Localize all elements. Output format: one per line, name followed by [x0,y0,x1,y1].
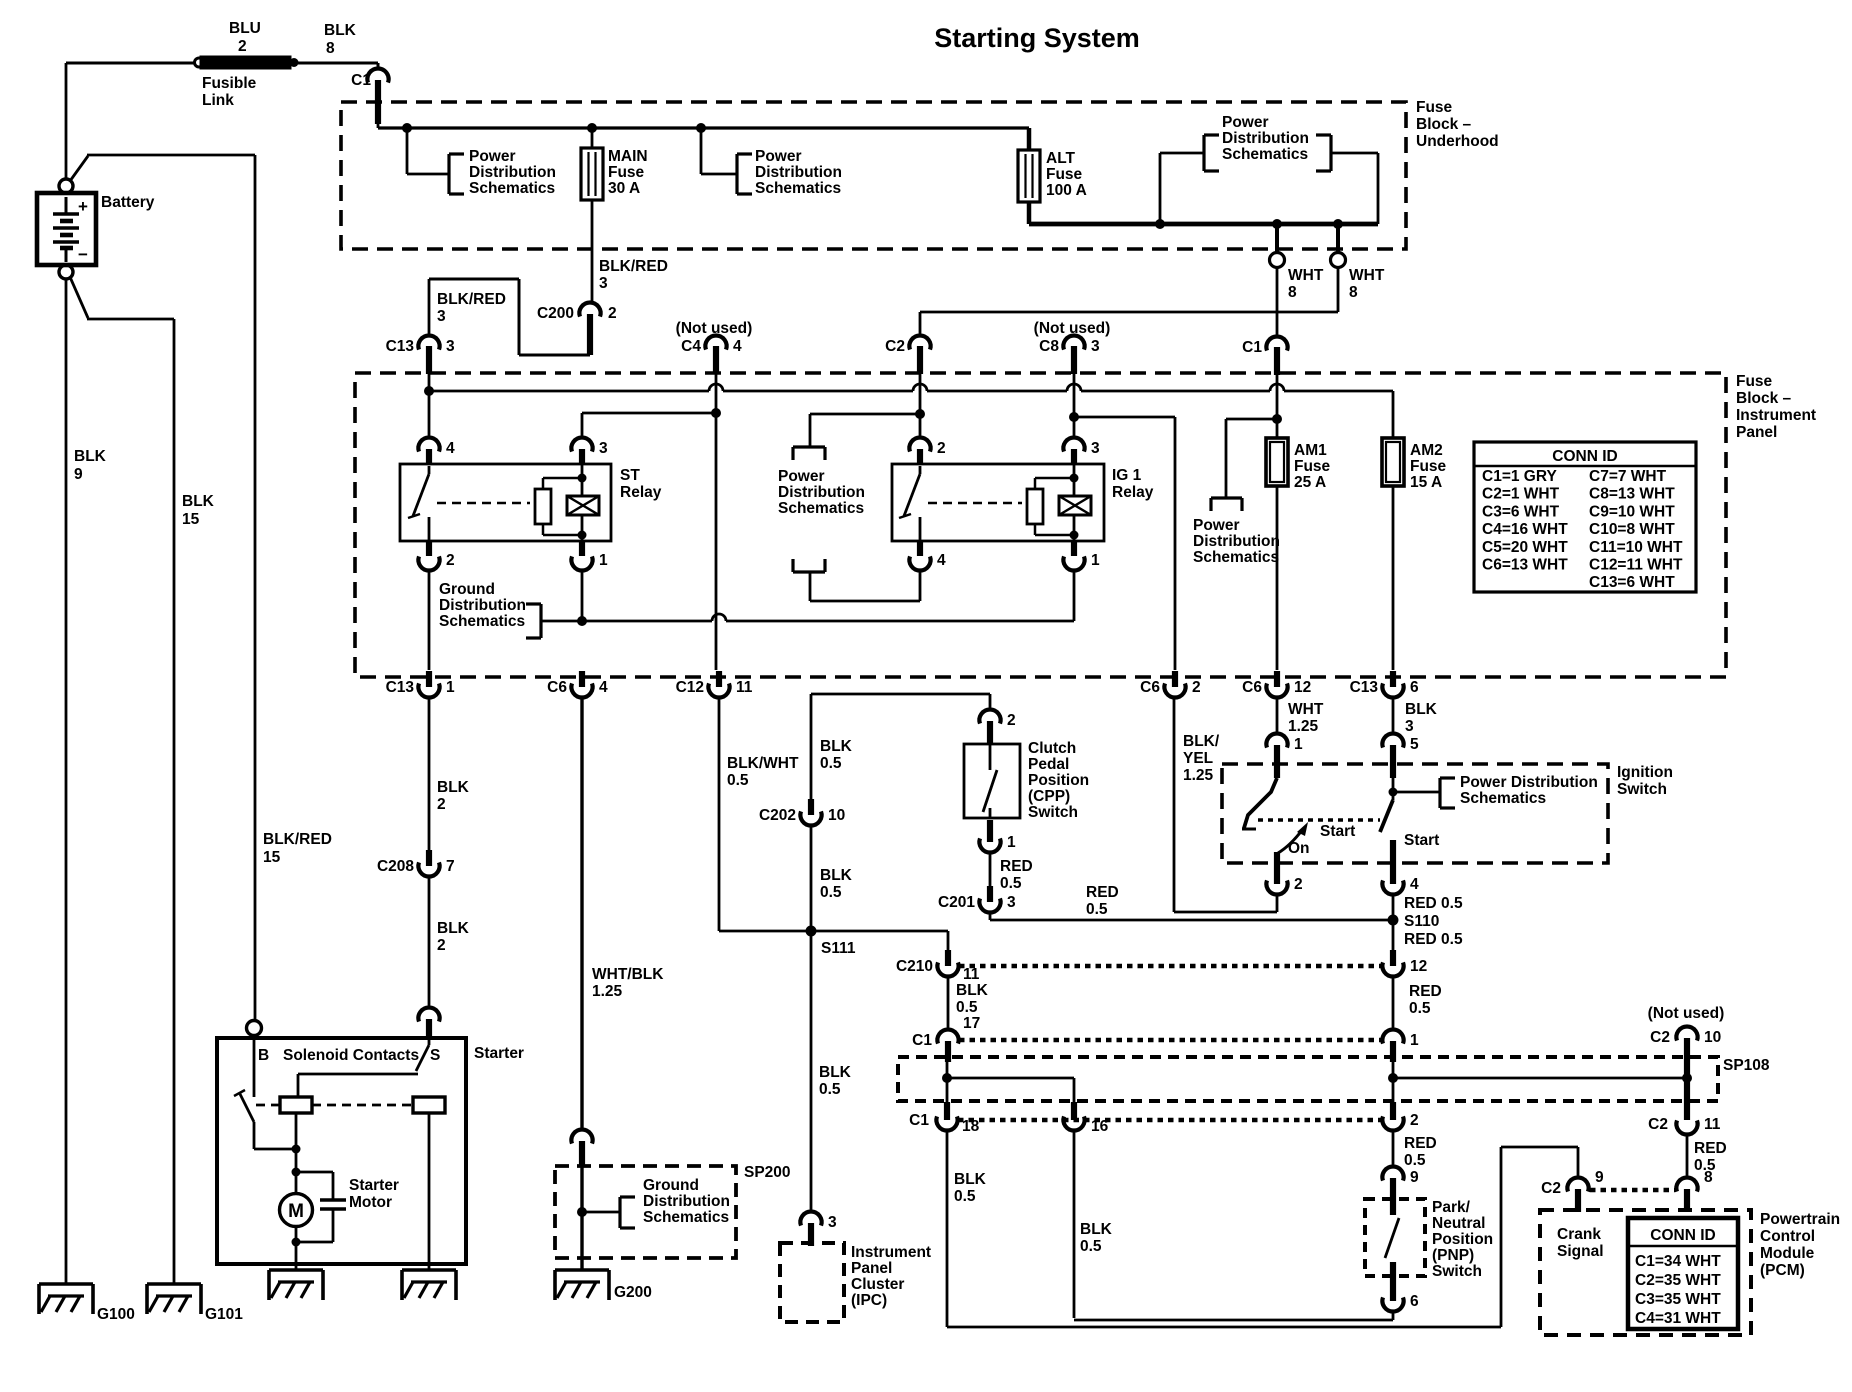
svg-text:Start: Start [1320,823,1355,840]
svg-text:15: 15 [182,511,200,528]
svg-text:Distribution: Distribution [778,484,865,501]
svg-text:Clutch: Clutch [1028,740,1076,757]
svg-text:8: 8 [326,40,335,57]
svg-text:2: 2 [238,38,247,55]
svg-text:3: 3 [599,275,608,292]
svg-text:G200: G200 [614,1284,652,1301]
svg-text:Cluster: Cluster [851,1276,904,1293]
svg-text:Schematics: Schematics [1460,790,1546,807]
svg-text:IG 1: IG 1 [1112,467,1142,484]
svg-text:C1: C1 [351,72,371,89]
svg-text:4: 4 [599,679,608,696]
svg-text:On: On [1288,840,1310,857]
svg-text:C10=8 WHT: C10=8 WHT [1589,521,1675,538]
svg-text:Fuse: Fuse [1294,458,1331,475]
svg-text:MAIN: MAIN [608,148,648,165]
svg-text:M: M [288,1201,304,1222]
svg-text:Panel: Panel [1736,424,1777,441]
svg-text:(CPP): (CPP) [1028,788,1070,805]
svg-text:Schematics: Schematics [1193,549,1279,566]
svg-text:Fuse: Fuse [1736,373,1773,390]
svg-text:0.5: 0.5 [1080,1238,1102,1255]
svg-text:100 A: 100 A [1046,182,1087,199]
svg-text:BLK: BLK [437,920,470,937]
svg-text:YEL: YEL [1183,750,1213,767]
svg-text:C13: C13 [1350,679,1379,696]
svg-text:C8=13 WHT: C8=13 WHT [1589,486,1675,503]
svg-text:C1=1 GRY: C1=1 GRY [1482,468,1557,485]
svg-text:1: 1 [1410,1032,1419,1049]
svg-text:S: S [430,1047,440,1064]
svg-text:C6: C6 [547,679,567,696]
svg-text:Schematics: Schematics [755,180,841,197]
svg-text:1: 1 [446,679,455,696]
svg-text:0.5: 0.5 [819,1081,841,1098]
svg-text:BLK: BLK [956,982,989,999]
svg-text:1: 1 [1007,834,1016,851]
svg-text:C5=20 WHT: C5=20 WHT [1482,539,1568,556]
svg-text:BLK: BLK [1080,1221,1113,1238]
svg-text:Starting System: Starting System [934,23,1140,53]
svg-text:4: 4 [446,440,455,457]
svg-text:2: 2 [437,937,446,954]
svg-text:Relay: Relay [620,484,662,501]
svg-text:(Not used): (Not used) [676,320,753,337]
svg-text:Link: Link [202,92,234,109]
svg-text:BLK/RED: BLK/RED [437,291,506,308]
svg-text:2: 2 [937,440,946,457]
svg-text:5: 5 [1410,736,1419,753]
svg-text:C208: C208 [377,858,414,875]
svg-text:4: 4 [1410,876,1419,893]
svg-text:B: B [258,1047,269,1064]
svg-text:RED: RED [1000,858,1033,875]
svg-text:11: 11 [736,679,753,696]
svg-text:Pedal: Pedal [1028,756,1069,773]
svg-text:Block –: Block – [1416,116,1472,133]
svg-text:Distribution: Distribution [643,1193,730,1210]
svg-text:SP200: SP200 [744,1164,791,1181]
svg-text:BLK: BLK [437,779,470,796]
svg-text:AM2: AM2 [1410,442,1443,459]
svg-text:3: 3 [1091,440,1100,457]
svg-text:RED 0.5: RED 0.5 [1404,895,1463,912]
svg-text:Instrument: Instrument [851,1244,931,1261]
svg-text:C4: C4 [681,338,701,355]
svg-text:Ground: Ground [643,1177,699,1194]
svg-text:17: 17 [963,1015,980,1032]
svg-text:C13: C13 [386,679,415,696]
svg-text:Power: Power [1222,114,1269,131]
svg-text:BLK/WHT: BLK/WHT [727,755,799,772]
svg-text:C3=6 WHT: C3=6 WHT [1482,503,1560,520]
svg-text:Switch: Switch [1432,1263,1482,1280]
svg-text:C9=10 WHT: C9=10 WHT [1589,503,1675,520]
svg-text:9: 9 [74,466,83,483]
svg-text:0.5: 0.5 [727,772,749,789]
svg-text:11: 11 [1704,1116,1721,1133]
svg-text:2: 2 [1410,1112,1419,1129]
svg-text:Switch: Switch [1028,804,1078,821]
svg-text:Relay: Relay [1112,484,1154,501]
svg-text:BLK: BLK [820,738,853,755]
svg-text:0.5: 0.5 [1000,875,1022,892]
svg-text:C6: C6 [1140,679,1160,696]
svg-text:16: 16 [1091,1118,1109,1135]
svg-text:0.5: 0.5 [1086,901,1108,918]
svg-text:C12=11 WHT: C12=11 WHT [1589,557,1683,574]
svg-text:3: 3 [1405,718,1414,735]
svg-text:2: 2 [446,552,455,569]
svg-text:1.25: 1.25 [592,983,623,1000]
svg-text:3: 3 [1007,894,1016,911]
svg-text:(PNP): (PNP) [1432,1247,1474,1264]
svg-text:CONN ID: CONN ID [1650,1227,1715,1244]
svg-text:Starter: Starter [349,1177,399,1194]
svg-text:(PCM): (PCM) [1760,1262,1805,1279]
svg-text:C210: C210 [896,958,933,975]
svg-text:1.25: 1.25 [1183,767,1214,784]
svg-text:1: 1 [599,552,608,569]
svg-text:BLK/RED: BLK/RED [263,831,332,848]
svg-text:Fuse: Fuse [1416,99,1453,116]
svg-text:Instrument: Instrument [1736,407,1816,424]
svg-text:Powertrain: Powertrain [1760,1211,1840,1228]
svg-text:25 A: 25 A [1294,474,1326,491]
svg-text:Position: Position [1028,772,1089,789]
svg-text:C2: C2 [1648,1116,1668,1133]
svg-text:4: 4 [733,338,742,355]
svg-text:(IPC): (IPC) [851,1292,887,1309]
svg-text:0.5: 0.5 [820,755,842,772]
svg-text:Signal: Signal [1557,1243,1604,1260]
svg-text:C200: C200 [537,305,574,322]
svg-text:C2: C2 [1650,1029,1670,1046]
svg-text:C4=16 WHT: C4=16 WHT [1482,521,1568,538]
svg-text:Distribution: Distribution [1193,533,1280,550]
svg-text:Power: Power [755,148,802,165]
svg-text:C202: C202 [759,807,796,824]
svg-text:RED: RED [1409,983,1442,1000]
svg-text:CONN ID: CONN ID [1552,448,1617,465]
svg-text:BLK/RED: BLK/RED [599,258,668,275]
svg-text:BLK: BLK [1405,701,1438,718]
svg-text:BLK: BLK [182,493,215,510]
svg-text:BLK: BLK [820,867,853,884]
svg-text:11: 11 [963,966,980,983]
svg-text:2: 2 [608,305,617,322]
svg-text:Power Distribution: Power Distribution [1460,774,1598,791]
svg-text:Switch: Switch [1617,781,1667,798]
svg-text:8: 8 [1349,284,1358,301]
svg-text:Motor: Motor [349,1194,392,1211]
svg-text:SP108: SP108 [1723,1057,1770,1074]
svg-text:Battery: Battery [101,194,155,211]
svg-text:C1=34 WHT: C1=34 WHT [1635,1253,1721,1270]
svg-text:RED: RED [1694,1140,1727,1157]
svg-text:WHT: WHT [1288,267,1324,284]
svg-text:C6=13 WHT: C6=13 WHT [1482,557,1568,574]
svg-text:BLK: BLK [819,1064,852,1081]
svg-text:3: 3 [1091,338,1100,355]
svg-text:S111: S111 [821,940,856,957]
svg-text:3: 3 [599,440,608,457]
svg-text:18: 18 [962,1118,980,1135]
svg-text:Start: Start [1404,832,1439,849]
svg-text:BLK: BLK [954,1171,987,1188]
svg-text:Power: Power [778,468,825,485]
svg-text:G101: G101 [205,1306,243,1323]
svg-text:BLU: BLU [229,20,261,37]
svg-text:2: 2 [1192,679,1201,696]
svg-text:C7=7 WHT: C7=7 WHT [1589,468,1667,485]
svg-text:6: 6 [1410,1293,1419,1310]
svg-text:C2=1 WHT: C2=1 WHT [1482,486,1560,503]
svg-text:Fuse: Fuse [1046,166,1083,183]
svg-text:C11=10 WHT: C11=10 WHT [1589,539,1683,556]
svg-text:C2=35 WHT: C2=35 WHT [1635,1272,1721,1289]
svg-text:2: 2 [1294,876,1303,893]
svg-text:15: 15 [263,849,281,866]
svg-text:Ground: Ground [439,581,495,598]
svg-text:15 A: 15 A [1410,474,1442,491]
svg-text:Distribution: Distribution [755,164,842,181]
svg-text:12: 12 [1410,958,1427,975]
svg-text:Neutral: Neutral [1432,1215,1485,1232]
svg-text:Power: Power [469,148,516,165]
svg-text:1: 1 [1294,736,1303,753]
svg-text:12: 12 [1294,679,1311,696]
svg-text:C1: C1 [909,1112,929,1129]
svg-text:Underhood: Underhood [1416,133,1499,150]
svg-text:Fuse: Fuse [1410,458,1447,475]
svg-text:Position: Position [1432,1231,1493,1248]
svg-text:C3=35 WHT: C3=35 WHT [1635,1291,1721,1308]
svg-text:Ignition: Ignition [1617,764,1673,781]
svg-text:Schematics: Schematics [643,1209,729,1226]
svg-text:Distribution: Distribution [439,597,526,614]
svg-text:0.5: 0.5 [956,999,978,1016]
svg-text:Park/: Park/ [1432,1199,1471,1216]
svg-text:RED: RED [1086,884,1119,901]
svg-text:(Not used): (Not used) [1648,1005,1725,1022]
svg-text:BLK: BLK [74,448,107,465]
svg-text:C201: C201 [938,894,975,911]
svg-text:Distribution: Distribution [1222,130,1309,147]
svg-text:8: 8 [1704,1169,1713,1186]
svg-text:0.5: 0.5 [1409,1000,1431,1017]
svg-text:C1: C1 [912,1032,932,1049]
svg-text:Power: Power [1193,517,1240,534]
svg-text:C8: C8 [1039,338,1059,355]
svg-text:C2: C2 [885,338,905,355]
svg-text:Schematics: Schematics [778,500,864,517]
svg-text:Panel: Panel [851,1260,892,1277]
svg-text:1: 1 [1091,552,1100,569]
svg-text:8: 8 [1288,284,1297,301]
svg-text:3: 3 [446,338,455,355]
svg-text:9: 9 [1410,1169,1419,1186]
svg-text:ST: ST [620,467,640,484]
svg-text:4: 4 [937,552,946,569]
svg-text:3: 3 [437,308,446,325]
svg-text:1.25: 1.25 [1288,718,1319,735]
svg-text:WHT: WHT [1349,267,1385,284]
svg-text:−: − [78,245,88,264]
svg-text:Fusible: Fusible [202,75,257,92]
svg-text:+: + [78,197,88,216]
svg-text:C12: C12 [676,679,704,696]
svg-text:6: 6 [1410,679,1419,696]
svg-text:C13: C13 [386,338,415,355]
svg-text:Schematics: Schematics [1222,146,1308,163]
svg-text:Solenoid Contacts: Solenoid Contacts [283,1047,419,1064]
svg-text:(Not used): (Not used) [1034,320,1111,337]
svg-text:C2: C2 [1541,1180,1561,1197]
svg-text:C6: C6 [1242,679,1262,696]
svg-text:2: 2 [437,796,446,813]
svg-text:2: 2 [1007,712,1016,729]
svg-text:ALT: ALT [1046,150,1076,167]
svg-text:WHT: WHT [1288,701,1324,718]
svg-text:9: 9 [1595,1169,1604,1186]
svg-text:Control: Control [1760,1228,1815,1245]
svg-text:AM1: AM1 [1294,442,1327,459]
svg-text:30 A: 30 A [608,180,640,197]
svg-text:Distribution: Distribution [469,164,556,181]
svg-text:10: 10 [828,807,845,824]
svg-text:C13=6 WHT: C13=6 WHT [1589,574,1675,591]
svg-text:RED 0.5: RED 0.5 [1404,931,1463,948]
svg-text:WHT/BLK: WHT/BLK [592,966,664,983]
svg-text:Module: Module [1760,1245,1815,1262]
svg-text:0.5: 0.5 [820,884,842,901]
svg-text:3: 3 [828,1214,837,1231]
svg-text:BLK: BLK [324,22,357,39]
svg-text:Starter: Starter [474,1045,524,1062]
svg-text:BLK/: BLK/ [1183,733,1220,750]
svg-text:Schematics: Schematics [439,613,525,630]
svg-text:10: 10 [1704,1029,1721,1046]
svg-text:Block –: Block – [1736,390,1792,407]
svg-text:RED: RED [1404,1135,1437,1152]
svg-text:Crank: Crank [1557,1226,1601,1243]
svg-text:Schematics: Schematics [469,180,555,197]
svg-text:C4=31 WHT: C4=31 WHT [1635,1310,1721,1327]
svg-text:S110: S110 [1404,913,1439,930]
svg-text:0.5: 0.5 [954,1188,976,1205]
svg-text:7: 7 [446,858,455,875]
svg-text:0.5: 0.5 [1404,1152,1426,1169]
svg-text:C1: C1 [1242,339,1262,356]
svg-text:G100: G100 [97,1306,135,1323]
svg-text:Fuse: Fuse [608,164,645,181]
